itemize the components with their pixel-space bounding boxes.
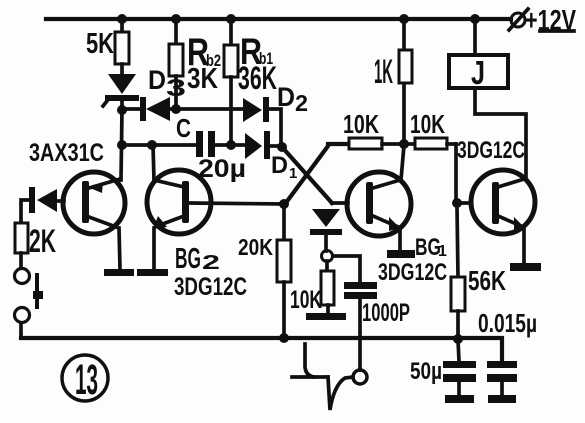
svg-text:1: 1: [289, 165, 297, 182]
svg-text:5K: 5K: [86, 28, 114, 60]
svg-text:D: D: [148, 65, 166, 95]
node B: [279, 199, 289, 209]
resistor 10K lower: [290, 261, 334, 314]
svg-text:J: J: [471, 54, 485, 91]
svg-text:1000P: 1000P: [362, 299, 410, 327]
ground bar BG1: [387, 250, 415, 258]
figure number 13: [62, 355, 108, 404]
ground bar under 10K: [306, 313, 346, 320]
wire D1 to junction: [270, 144, 282, 148]
node row2 at Rb1: [226, 140, 236, 150]
switch button: [15, 269, 44, 339]
wire D2 to corner: [269, 109, 281, 146]
transistor BG1 3DG12C: [347, 145, 447, 286]
svg-text:56K: 56K: [468, 265, 506, 296]
svg-text:2: 2: [202, 252, 220, 274]
node top rail at 1K: [399, 14, 409, 24]
diode D2: [243, 82, 308, 122]
svg-text:50µ: 50µ: [410, 358, 442, 385]
svg-text:10K: 10K: [410, 109, 445, 139]
resistor 20K: [238, 204, 291, 338]
node A wire to BG1 base: [332, 201, 348, 205]
wire top +12V rail: [46, 17, 511, 21]
resistor Rb2 3K: [169, 19, 221, 109]
terminal trigger input circle: [353, 370, 367, 384]
wire base diode to 2K: [21, 200, 29, 223]
capacitor 1000P: [344, 282, 410, 370]
svg-text:0.015µ: 0.015µ: [478, 308, 537, 338]
transistor Q 3AX31C: [29, 139, 125, 269]
svg-text:3DG12C: 3DG12C: [378, 259, 447, 286]
svg-text:2: 2: [295, 90, 308, 116]
diode trigger pointing down: [310, 209, 342, 251]
wire diagonal node B to 10K row: [285, 144, 346, 204]
svg-text:C: C: [176, 113, 191, 143]
relay J: [449, 19, 526, 178]
svg-text:10K: 10K: [290, 286, 322, 314]
wire diagonal junction to node A: [282, 147, 332, 203]
wire row1 middle: [170, 107, 243, 111]
svg-text:3AX31C: 3AX31C: [29, 139, 104, 167]
svg-text:3DG12C: 3DG12C: [457, 137, 525, 164]
node top rail at Rb1: [226, 14, 236, 24]
node bottom rail 20K: [279, 333, 289, 343]
svg-text:1: 1: [438, 243, 447, 260]
resistor 1K: [374, 19, 412, 144]
resistor 10K right: [404, 109, 456, 149]
node 10K junction: [399, 139, 409, 149]
node top rail at Rb2: [171, 14, 181, 24]
svg-text:36K: 36K: [238, 60, 277, 96]
terminal +12V: [509, 5, 576, 37]
transistor BG2 3DG12C: [147, 145, 247, 301]
node junction zener/D3: [117, 105, 127, 115]
resistor 5K: [86, 19, 129, 75]
svg-text:10K: 10K: [343, 109, 379, 139]
node base/56K: [452, 198, 462, 208]
svg-text:3DG12C: 3DG12C: [174, 273, 247, 301]
resistor Rb1 36K: [224, 19, 277, 145]
wire node down to 3AX31C emitter: [121, 110, 122, 180]
waveform trigger pulse: [292, 344, 353, 410]
capacitor 0.015u: [478, 308, 537, 403]
wire row1 left: [122, 107, 141, 111]
wire row2 left: [122, 143, 196, 147]
svg-text:D: D: [271, 152, 288, 179]
node terminal circle under diode: [322, 251, 333, 262]
svg-text:13: 13: [75, 356, 98, 404]
node bottom rail 56K: [453, 334, 463, 344]
transistor output 3DG12C: [457, 137, 535, 262]
wire bottom rail: [21, 338, 502, 361]
diode D3: [140, 65, 186, 121]
node top rail at 5K: [117, 14, 127, 24]
node D1/D2 junction: [277, 142, 287, 152]
svg-text:3K: 3K: [187, 63, 218, 95]
resistor 10K left: [343, 109, 404, 149]
node row1 at Rb2: [171, 104, 181, 114]
svg-text:2K: 2K: [29, 223, 56, 259]
node row2 at BG2 collector: [147, 140, 157, 150]
wire BG2 base to node B: [189, 203, 284, 204]
wire 10K to right transistor base: [456, 144, 471, 203]
svg-text:20µ: 20µ: [198, 155, 246, 183]
diode zener below 5K: [103, 74, 139, 110]
svg-text:BG: BG: [175, 243, 201, 275]
ground bar output transistor: [510, 263, 541, 271]
ground dashes left transistors: [104, 269, 134, 276]
node top rail at relay J: [470, 14, 480, 24]
svg-text:20K: 20K: [238, 234, 273, 260]
wire circle to 1000P: [333, 256, 360, 282]
resistor 2K: [15, 223, 56, 268]
node row2 at emitter line: [117, 140, 127, 150]
diode at 3AX31C base: [29, 187, 64, 213]
resistor 56K: [451, 207, 506, 338]
capacitor 50u: [410, 340, 476, 403]
svg-text:1K: 1K: [374, 53, 393, 91]
diode D1: [245, 131, 297, 182]
capacitor C 20u: [176, 113, 246, 183]
wire row2 middle: [215, 143, 245, 147]
